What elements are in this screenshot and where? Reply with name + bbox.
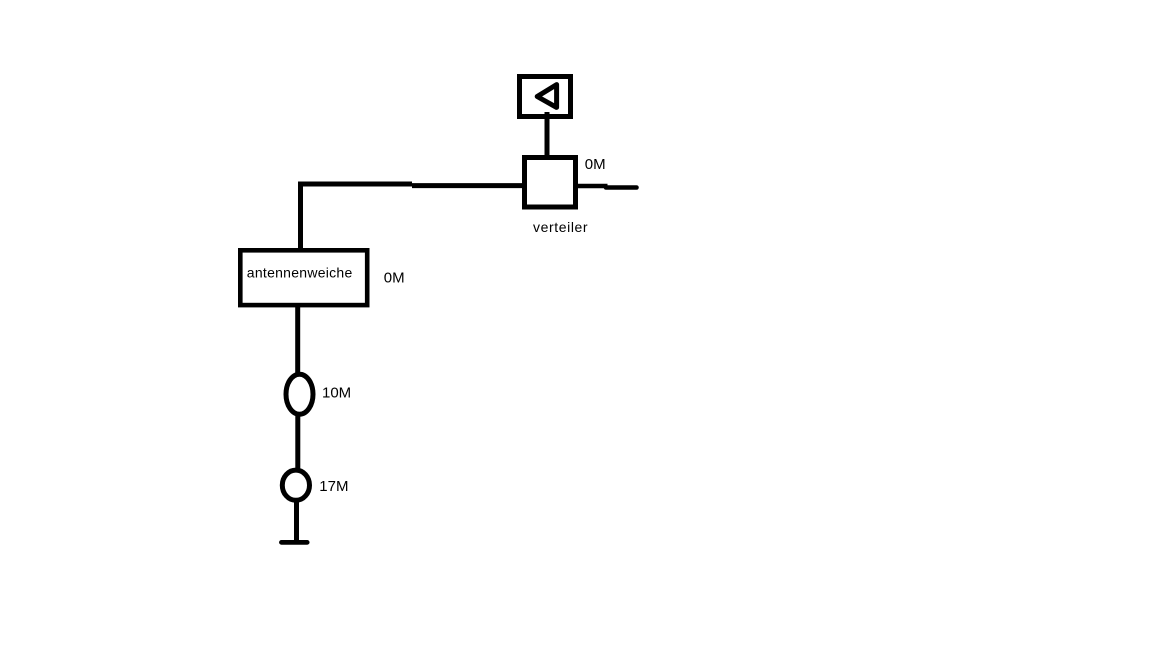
svg-text:17M: 17M <box>319 478 348 495</box>
svg-text:0M: 0M <box>384 270 405 287</box>
svg-text:verteiler: verteiler <box>533 219 588 235</box>
verteiler box <box>525 158 576 208</box>
ground bar <box>281 540 307 545</box>
svg-text:antennenweiche: antennenweiche <box>247 264 353 280</box>
wire circle to ground <box>294 499 299 542</box>
ellipse element 10M <box>286 374 313 414</box>
wire verteiler left segment A <box>298 182 412 187</box>
wire ellipse to circle 17M <box>295 413 300 470</box>
circle element 17M <box>282 470 309 500</box>
svg-text:10M: 10M <box>322 384 351 401</box>
wire verteiler left segment B <box>412 183 524 188</box>
wire antennenweiche to ellipse 10M <box>295 305 300 375</box>
amplifier triangle symbol <box>537 85 556 108</box>
svg-text:0M: 0M <box>585 156 606 173</box>
wire verteiler right segment 1 <box>576 184 608 188</box>
antennenweiche box <box>240 250 367 305</box>
wire corner down to antennenweiche <box>298 182 303 250</box>
wire verteiler right segment 2 <box>606 185 637 190</box>
wire amplifier to verteiler <box>545 112 550 160</box>
amplifier box U1 <box>520 77 571 117</box>
